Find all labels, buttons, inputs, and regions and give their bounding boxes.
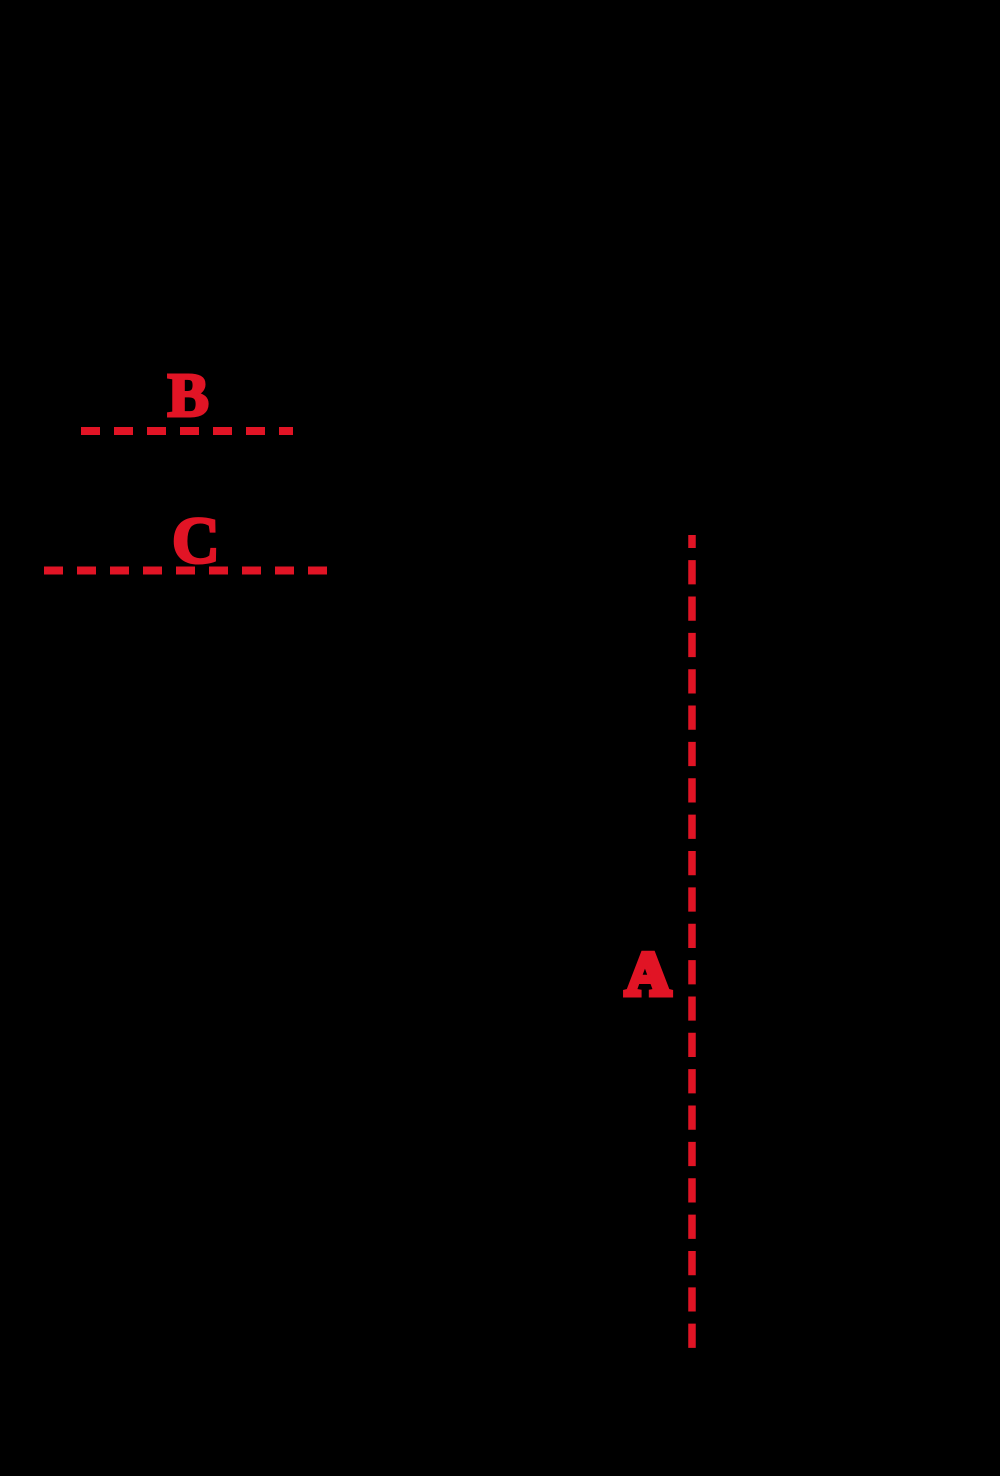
dashed line B (81, 427, 293, 435)
svg-text:B: B (168, 362, 209, 430)
svg-text:A: A (626, 942, 671, 1009)
dashed line A (vertical) (688, 535, 696, 1348)
dashed line C (44, 567, 328, 575)
